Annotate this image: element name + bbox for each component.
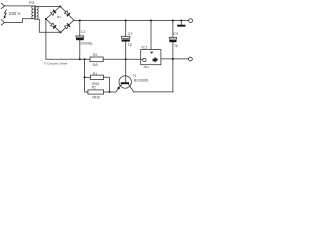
svg-text:2k0: 2k0 [93, 63, 98, 67]
svg-text:1µ: 1µ [128, 43, 132, 47]
svg-text:C2: C2 [128, 32, 133, 36]
svg-text:0R18: 0R18 [92, 96, 100, 100]
svg-text:BU1300D: BU1300D [134, 79, 149, 83]
svg-text:22000µ: 22000µ [80, 42, 92, 46]
svg-text:T1: T1 [133, 74, 137, 78]
svg-text:R2: R2 [92, 86, 96, 90]
svg-text:1µ: 1µ [174, 43, 178, 47]
svg-text:TR1: TR1 [29, 1, 35, 5]
svg-text:R3: R3 [93, 53, 97, 57]
svg-text:230 V: 230 V [9, 11, 21, 16]
svg-text:C1: C1 [81, 30, 86, 34]
svg-text:C3: C3 [173, 32, 178, 36]
svg-text:78xx: 78xx [143, 65, 149, 69]
svg-text:IC1: IC1 [142, 45, 148, 49]
svg-text:R1: R1 [93, 72, 97, 76]
svg-text:B1: B1 [57, 15, 61, 19]
svg-text:© Circuits Online: © Circuits Online [44, 62, 68, 66]
